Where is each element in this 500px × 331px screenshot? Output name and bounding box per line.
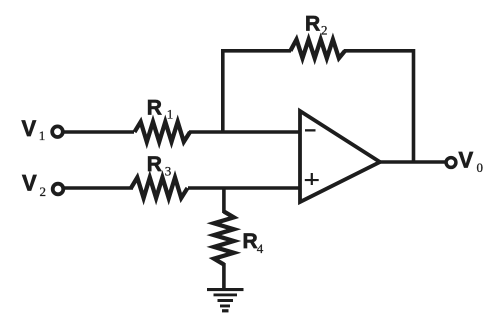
svg-text:3: 3 <box>165 164 172 179</box>
wire R3 to op-amp non-inverting input <box>188 186 300 190</box>
wire V2 input <box>64 186 133 190</box>
terminal V0 <box>446 158 456 168</box>
terminal V2 <box>53 184 64 195</box>
svg-text:4: 4 <box>257 241 264 256</box>
wire V1 input <box>64 130 134 134</box>
svg-text:R: R <box>147 153 162 176</box>
wire feedback right vertical <box>412 49 416 162</box>
svg-text:R: R <box>243 230 258 253</box>
op-amp U1 <box>300 111 380 202</box>
svg-text:2: 2 <box>321 23 328 38</box>
resistor R1 <box>135 122 191 142</box>
svg-text:1: 1 <box>167 107 174 122</box>
wire R4 to ground <box>222 263 226 289</box>
op-amp minus sign <box>305 129 316 131</box>
ground <box>207 288 244 312</box>
wire R1 to op-amp inverting input <box>189 130 300 134</box>
wire feedback top right <box>344 49 414 53</box>
svg-text:2: 2 <box>40 184 47 199</box>
svg-text:1: 1 <box>39 128 46 143</box>
resistor R4 <box>214 212 234 265</box>
wire op-amp output <box>380 160 445 164</box>
svg-text:V: V <box>459 147 474 172</box>
svg-text:0: 0 <box>477 160 484 175</box>
svg-text:V: V <box>22 171 37 196</box>
terminal V1 <box>52 126 63 137</box>
wire feedback left vertical (node to R2 loop) <box>221 51 225 132</box>
svg-text:V: V <box>22 116 37 141</box>
wire feedback top left <box>221 49 291 53</box>
op-amp plus sign <box>305 173 319 185</box>
wire node to R4 <box>222 188 226 213</box>
resistor R2 <box>290 40 345 59</box>
svg-text:R: R <box>147 96 162 119</box>
svg-text:R: R <box>305 13 320 36</box>
resistor R3 <box>131 178 188 199</box>
